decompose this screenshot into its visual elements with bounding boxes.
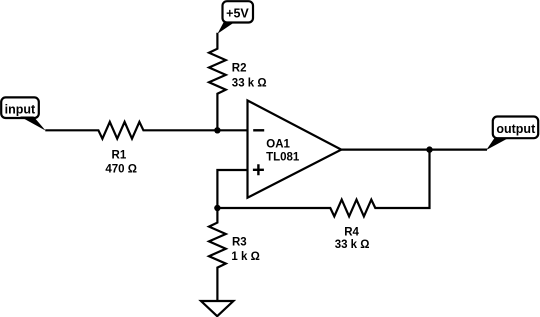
svg-text:R3: R3 [232,237,247,249]
svg-text:output: output [496,122,536,136]
svg-text:R1: R1 [112,150,127,162]
svg-text:470 Ω: 470 Ω [105,164,137,176]
svg-text:1 k Ω: 1 k Ω [231,251,259,263]
svg-text:R4: R4 [344,227,359,239]
svg-text:OA1: OA1 [266,139,290,151]
svg-text:TL081: TL081 [266,152,300,164]
svg-text:input: input [5,103,36,117]
svg-text:+5V: +5V [226,7,249,21]
svg-text:33 k Ω: 33 k Ω [335,239,370,251]
svg-text:R2: R2 [232,62,247,74]
svg-text:33 k Ω: 33 k Ω [232,78,267,90]
